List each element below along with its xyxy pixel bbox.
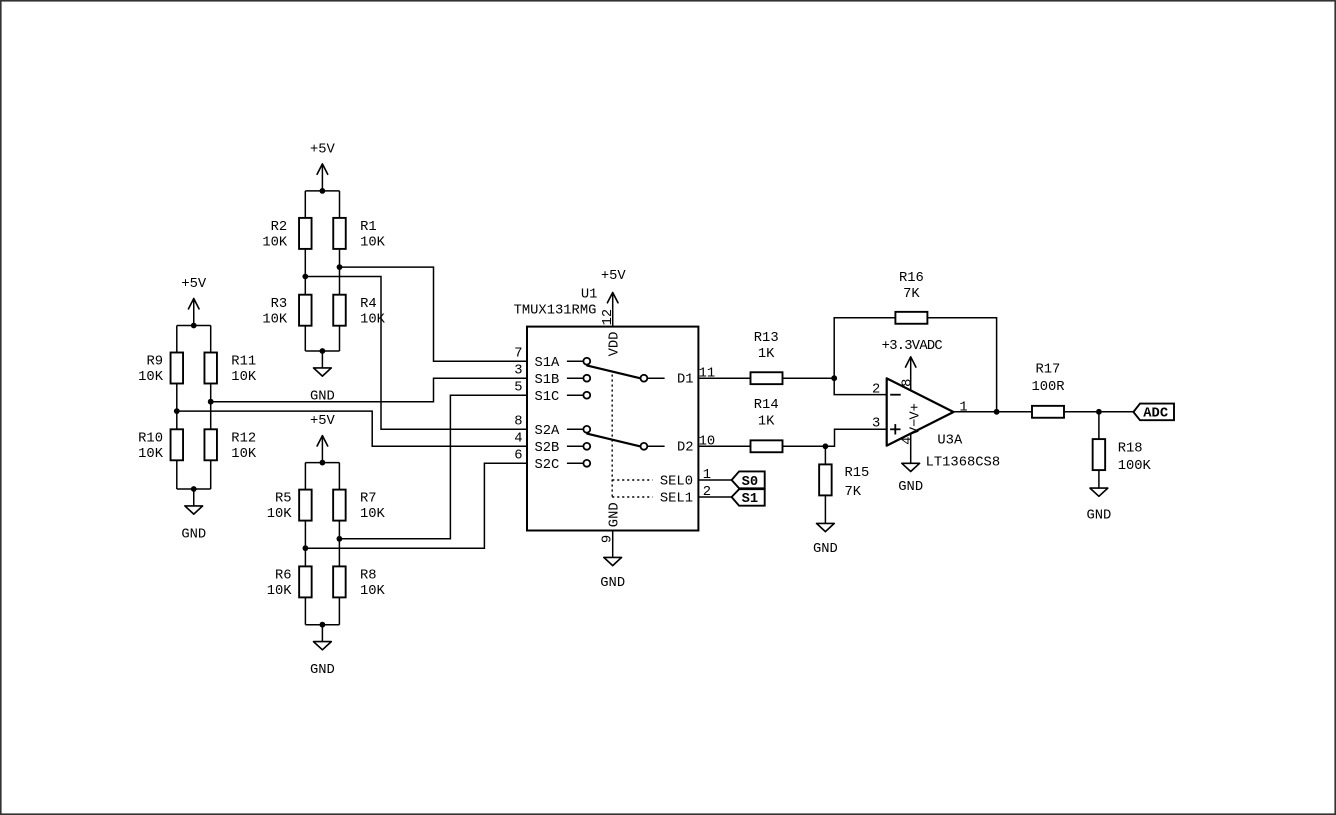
wire net-B left tap to U1 S2A <box>305 277 527 430</box>
svg-text:U3A: U3A <box>937 434 963 449</box>
ground net-A <box>181 489 206 542</box>
svg-text:5: 5 <box>514 380 522 395</box>
svg-text:R9: R9 <box>146 355 163 370</box>
svg-text:D2: D2 <box>677 440 694 455</box>
svg-text:GND: GND <box>898 480 923 495</box>
svg-text:9: 9 <box>600 535 615 543</box>
svg-text:3: 3 <box>514 363 522 378</box>
U1 pin 3 (S1B) <box>514 363 590 388</box>
svg-text:R15: R15 <box>845 466 870 481</box>
svg-text:GND: GND <box>1086 509 1111 524</box>
U1 pin 10 (D2) <box>641 435 716 456</box>
svg-text:R17: R17 <box>1035 363 1060 378</box>
wire top rail net-A <box>177 325 211 327</box>
wire R14 to non-inverting node <box>783 445 826 447</box>
svg-text:R16: R16 <box>899 271 924 286</box>
wire bottom rail net-A <box>177 488 211 490</box>
svg-text:S0: S0 <box>742 475 759 490</box>
svg-text:R10: R10 <box>138 431 163 446</box>
wire net-C right lower <box>338 597 340 624</box>
U1 pin 8 (S2A) <box>514 414 590 439</box>
svg-text:R1: R1 <box>360 220 377 235</box>
svg-text:GND: GND <box>310 663 335 678</box>
wire feedback left leg <box>834 318 895 378</box>
junction non-inverting node <box>823 443 829 449</box>
U1 pin 9 (GND) <box>600 502 622 557</box>
power +5V for net-B <box>310 142 336 191</box>
power +5V for net-A <box>181 277 207 326</box>
wire net-C right tap to U1 S1C <box>339 395 527 539</box>
power +5V for net-C <box>310 414 336 463</box>
svg-text:100K: 100K <box>1118 459 1152 474</box>
junction top rail net-C <box>320 460 326 466</box>
U1 pin 11 (D1) <box>641 367 716 388</box>
resistor R10 <box>138 429 183 462</box>
svg-text:D1: D1 <box>677 372 694 387</box>
svg-text:10K: 10K <box>360 584 386 599</box>
wire net-C right mid <box>338 521 340 567</box>
svg-text:12: 12 <box>601 309 616 326</box>
IC U1 TMUX131RMG body <box>514 287 699 530</box>
svg-text:R13: R13 <box>754 331 779 346</box>
ground for U1 <box>600 557 625 591</box>
svg-text:10K: 10K <box>138 447 164 462</box>
wire to op-amp pin 3 <box>825 429 886 446</box>
resistor R16 <box>895 271 927 324</box>
ground for R18 <box>1086 488 1111 523</box>
U3A pin 8 (V+) <box>901 357 924 420</box>
wire U1 D1 to R13 <box>698 377 750 379</box>
junction bottom rail net-C <box>320 622 326 628</box>
junction bottom rail net-B <box>320 348 326 354</box>
svg-text:VDD: VDD <box>607 332 622 357</box>
wire R17 to ADC node <box>1064 411 1134 413</box>
svg-text:4: 4 <box>514 431 522 446</box>
svg-text:+5V: +5V <box>310 414 336 429</box>
svg-text:V+: V+ <box>909 403 924 420</box>
resistor R2 <box>262 218 311 251</box>
svg-text:+5V: +5V <box>181 277 207 292</box>
svg-text:S2C: S2C <box>535 458 560 473</box>
wire U1 D2 to R14 <box>698 445 750 447</box>
resistor R1 <box>333 218 385 251</box>
junction net-B left tap <box>302 274 308 280</box>
wire net-A right lower <box>210 460 212 489</box>
wire op-amp output to R17 <box>954 411 1033 413</box>
power +5V for U1 VDD <box>601 269 627 310</box>
svg-text:1: 1 <box>959 400 967 415</box>
svg-text:S1B: S1B <box>535 373 560 388</box>
resistor R14 <box>751 398 783 452</box>
resistor R9 <box>138 353 183 386</box>
wire bottom rail net-B <box>305 350 339 352</box>
svg-text:GND: GND <box>813 542 838 557</box>
resistor R7 <box>333 490 385 523</box>
resistor R18 <box>1093 412 1152 488</box>
resistor R17 <box>1031 363 1064 418</box>
svg-text:7K: 7K <box>903 287 920 302</box>
svg-text:R3: R3 <box>271 297 288 312</box>
U1 switch S1A-D1 <box>587 366 640 379</box>
svg-text:R5: R5 <box>275 492 292 507</box>
wire feedback right leg <box>927 318 996 412</box>
junction top rail net-B <box>320 188 326 194</box>
svg-text:+3.3VADC: +3.3VADC <box>882 339 943 354</box>
svg-text:LT1368CS8: LT1368CS8 <box>926 455 1001 470</box>
svg-text:GND: GND <box>607 502 622 527</box>
svg-text:10K: 10K <box>262 236 288 251</box>
U1 pin 1 (SEL0) <box>612 468 731 489</box>
svg-text:R6: R6 <box>275 569 292 584</box>
svg-text:1: 1 <box>703 468 711 483</box>
U1 pin 6 (S2C) <box>514 448 590 473</box>
svg-text:SEL0: SEL0 <box>660 474 693 489</box>
wire to op-amp pin 2 <box>834 378 887 394</box>
svg-text:V−: V− <box>909 419 924 436</box>
wire net-A right tap to U1 S1B <box>211 378 527 402</box>
svg-text:3: 3 <box>872 417 880 432</box>
wire net-A left column <box>176 326 178 353</box>
svg-text:10: 10 <box>699 435 716 450</box>
svg-text:S2B: S2B <box>535 441 560 456</box>
U1 pin 2 (SEL1) <box>612 485 731 506</box>
svg-text:SEL1: SEL1 <box>660 491 693 506</box>
svg-text:R7: R7 <box>360 492 377 507</box>
resistor R11 <box>204 353 256 386</box>
svg-text:10K: 10K <box>267 507 293 522</box>
svg-text:S1: S1 <box>742 492 759 507</box>
svg-text:S1C: S1C <box>535 390 560 405</box>
wire net-A right mid <box>210 384 212 430</box>
U1 select dashed control line <box>611 375 613 498</box>
U1 pin 4 (S2B) <box>514 431 590 456</box>
svg-text:R18: R18 <box>1118 441 1143 456</box>
wire net-A right column <box>210 326 212 353</box>
U1 pin 5 (S1C) <box>514 380 590 405</box>
wire net-C left tap to U1 S2C <box>305 463 527 548</box>
svg-text:10K: 10K <box>267 584 293 599</box>
svg-text:R11: R11 <box>231 355 256 370</box>
U1 pin 7 (S1A) <box>514 346 590 371</box>
wire R13 to inverting node <box>783 377 835 379</box>
ground net-B <box>310 351 335 404</box>
svg-text:10K: 10K <box>138 370 164 385</box>
power +3.3VADC <box>882 339 943 367</box>
wire net-C right column <box>338 463 340 490</box>
resistor R12 <box>204 429 256 462</box>
svg-text:GND: GND <box>181 527 206 542</box>
svg-text:1K: 1K <box>758 347 775 362</box>
svg-text:ADC: ADC <box>1143 406 1168 421</box>
svg-text:S2A: S2A <box>535 424 561 439</box>
svg-text:R14: R14 <box>754 398 779 413</box>
junction output/feedback <box>994 409 1000 415</box>
node S0 global label <box>732 471 765 490</box>
junction net-B right tap <box>337 264 343 270</box>
svg-text:R8: R8 <box>360 569 377 584</box>
resistor R8 <box>333 566 385 599</box>
resistor R5 <box>267 490 312 523</box>
junction top rail net-A <box>191 323 197 329</box>
svg-text:R12: R12 <box>231 431 256 446</box>
svg-text:10K: 10K <box>231 370 257 385</box>
U1 pin 12 (VDD) <box>601 309 622 357</box>
resistor R15 <box>819 446 869 523</box>
junction net-A left tap <box>174 408 180 414</box>
junction net-C right tap <box>337 536 343 542</box>
junction ADC node <box>1096 409 1102 415</box>
svg-text:8: 8 <box>901 379 916 387</box>
svg-text:1K: 1K <box>758 415 775 430</box>
svg-text:R4: R4 <box>360 297 377 312</box>
wire net-A left mid <box>176 384 178 430</box>
ground net-C <box>310 625 335 678</box>
svg-text:10K: 10K <box>360 507 386 522</box>
wire net-B left lower <box>304 326 306 351</box>
svg-text:8: 8 <box>514 414 522 429</box>
U1 switch S2A-D2 <box>587 434 640 447</box>
wire net-C left column <box>304 463 306 490</box>
wire bottom rail net-C <box>305 624 339 626</box>
junction net-C left tap <box>303 545 309 551</box>
wire net-B right lower <box>339 326 341 351</box>
junction bottom rail net-A <box>191 486 197 492</box>
node S1 global label <box>732 489 765 507</box>
U3A pin 4 (V-) <box>901 419 924 464</box>
wire net-B right column <box>339 191 341 218</box>
svg-text:6: 6 <box>514 448 522 463</box>
svg-text:S1A: S1A <box>535 356 561 371</box>
svg-text:U1: U1 <box>581 287 598 302</box>
op-amp U3A <box>872 378 1000 470</box>
resistor R13 <box>751 331 783 384</box>
wire net-B right mid <box>339 249 341 295</box>
wire top rail net-C <box>305 462 339 464</box>
node ADC global label <box>1133 404 1174 422</box>
wire net-C left lower <box>304 597 306 624</box>
wire net-A left lower <box>176 460 178 489</box>
resistor R4 <box>333 295 385 328</box>
resistor R3 <box>262 295 311 328</box>
wire top rail net-B <box>305 190 339 192</box>
svg-text:10K: 10K <box>360 312 386 327</box>
svg-text:7K: 7K <box>845 485 862 500</box>
svg-text:TMUX131RMG: TMUX131RMG <box>514 304 597 319</box>
svg-text:R2: R2 <box>271 220 288 235</box>
svg-text:GND: GND <box>600 576 625 591</box>
wire net-B left mid <box>304 249 306 295</box>
svg-text:+5V: +5V <box>310 142 336 157</box>
svg-text:10K: 10K <box>262 312 288 327</box>
junction net-A right tap <box>208 399 214 405</box>
svg-text:2: 2 <box>872 382 880 397</box>
ground for R15 <box>813 523 838 557</box>
svg-text:10K: 10K <box>231 447 257 462</box>
wire net-C left mid <box>304 521 306 567</box>
svg-text:2: 2 <box>703 485 711 500</box>
svg-text:+5V: +5V <box>601 269 627 284</box>
junction inverting node <box>831 375 837 381</box>
resistor R6 <box>267 566 312 599</box>
wire net-B right tap to U1 S1A <box>340 267 528 361</box>
svg-text:11: 11 <box>699 367 716 382</box>
wire net-B left column <box>304 191 306 218</box>
svg-text:10K: 10K <box>360 236 386 251</box>
wire net-A left tap to U1 S2B <box>177 411 527 446</box>
ground for U3A <box>898 463 923 495</box>
svg-text:100R: 100R <box>1031 380 1064 395</box>
svg-text:4: 4 <box>901 437 916 445</box>
svg-text:7: 7 <box>514 346 522 361</box>
